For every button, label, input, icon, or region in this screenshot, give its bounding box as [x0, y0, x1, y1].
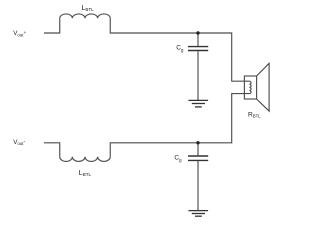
svg-text:Vout-: Vout- [13, 139, 25, 146]
svg-text:Cg: Cg [174, 155, 182, 163]
svg-text:LBTL: LBTL [82, 5, 95, 12]
svg-text:Cg: Cg [176, 44, 184, 52]
svg-text:LBTL: LBTL [79, 170, 92, 177]
svg-text:RBTL: RBTL [248, 112, 261, 119]
svg-text:Vout+: Vout+ [13, 30, 26, 37]
